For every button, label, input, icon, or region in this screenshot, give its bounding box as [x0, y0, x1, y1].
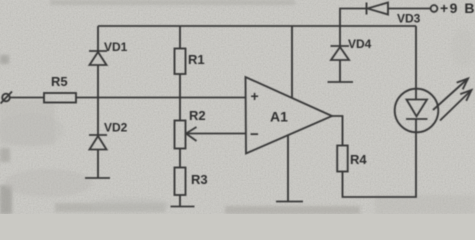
wire R2 wiper to inverting input [186, 127, 247, 141]
wire rail to VD3 [340, 9, 367, 27]
svg-text:R2: R2 [189, 108, 206, 123]
op-amp A1 [246, 77, 333, 154]
wire op-amp output to R4 [332, 116, 343, 146]
resistor R3 [175, 168, 208, 207]
svg-text:R4: R4 [350, 152, 367, 167]
diode VD1 [89, 26, 128, 98]
diode VD4 [331, 26, 372, 82]
wire +9V top rail [98, 25, 416, 27]
ground (op-amp) [276, 201, 303, 203]
input terminal X1 [1, 92, 13, 104]
svg-text:A1: A1 [270, 109, 288, 125]
wire input to R5 [10, 97, 45, 99]
diode VD3 [367, 3, 421, 26]
wire op-amp positive supply [291, 26, 293, 99]
resistor R1 [175, 26, 205, 98]
terminal +9V [431, 0, 475, 16]
svg-text:VD4: VD4 [348, 37, 372, 51]
resistor R5 [44, 74, 76, 103]
wire VD3 to +9V terminal [388, 8, 431, 10]
svg-text:VD3: VD3 [397, 12, 421, 26]
svg-text:R5: R5 [51, 74, 68, 89]
wire op-amp negative supply [287, 136, 289, 202]
LED emission arrows [433, 79, 472, 121]
svg-text:VD1: VD1 [104, 40, 128, 54]
diode VD2 [89, 98, 128, 179]
wire LED anode to rail [415, 26, 417, 89]
ground (VD2) [85, 177, 110, 179]
svg-text:−: − [250, 126, 259, 143]
svg-text:R1: R1 [188, 52, 205, 67]
wire R4 to LED cathode [343, 133, 417, 198]
resistor R4 [337, 146, 367, 172]
svg-text:+: + [251, 88, 259, 104]
svg-text:R3: R3 [191, 172, 208, 187]
svg-text:VD2: VD2 [104, 121, 128, 135]
wire R5 to op-amp noninverting input [76, 97, 247, 99]
potentiometer R2 [175, 98, 206, 168]
ground (R3) [171, 206, 195, 208]
LED HL1 [395, 89, 439, 133]
ground (VD4) [328, 81, 354, 83]
svg-text:+9 В: +9 В [440, 0, 475, 16]
